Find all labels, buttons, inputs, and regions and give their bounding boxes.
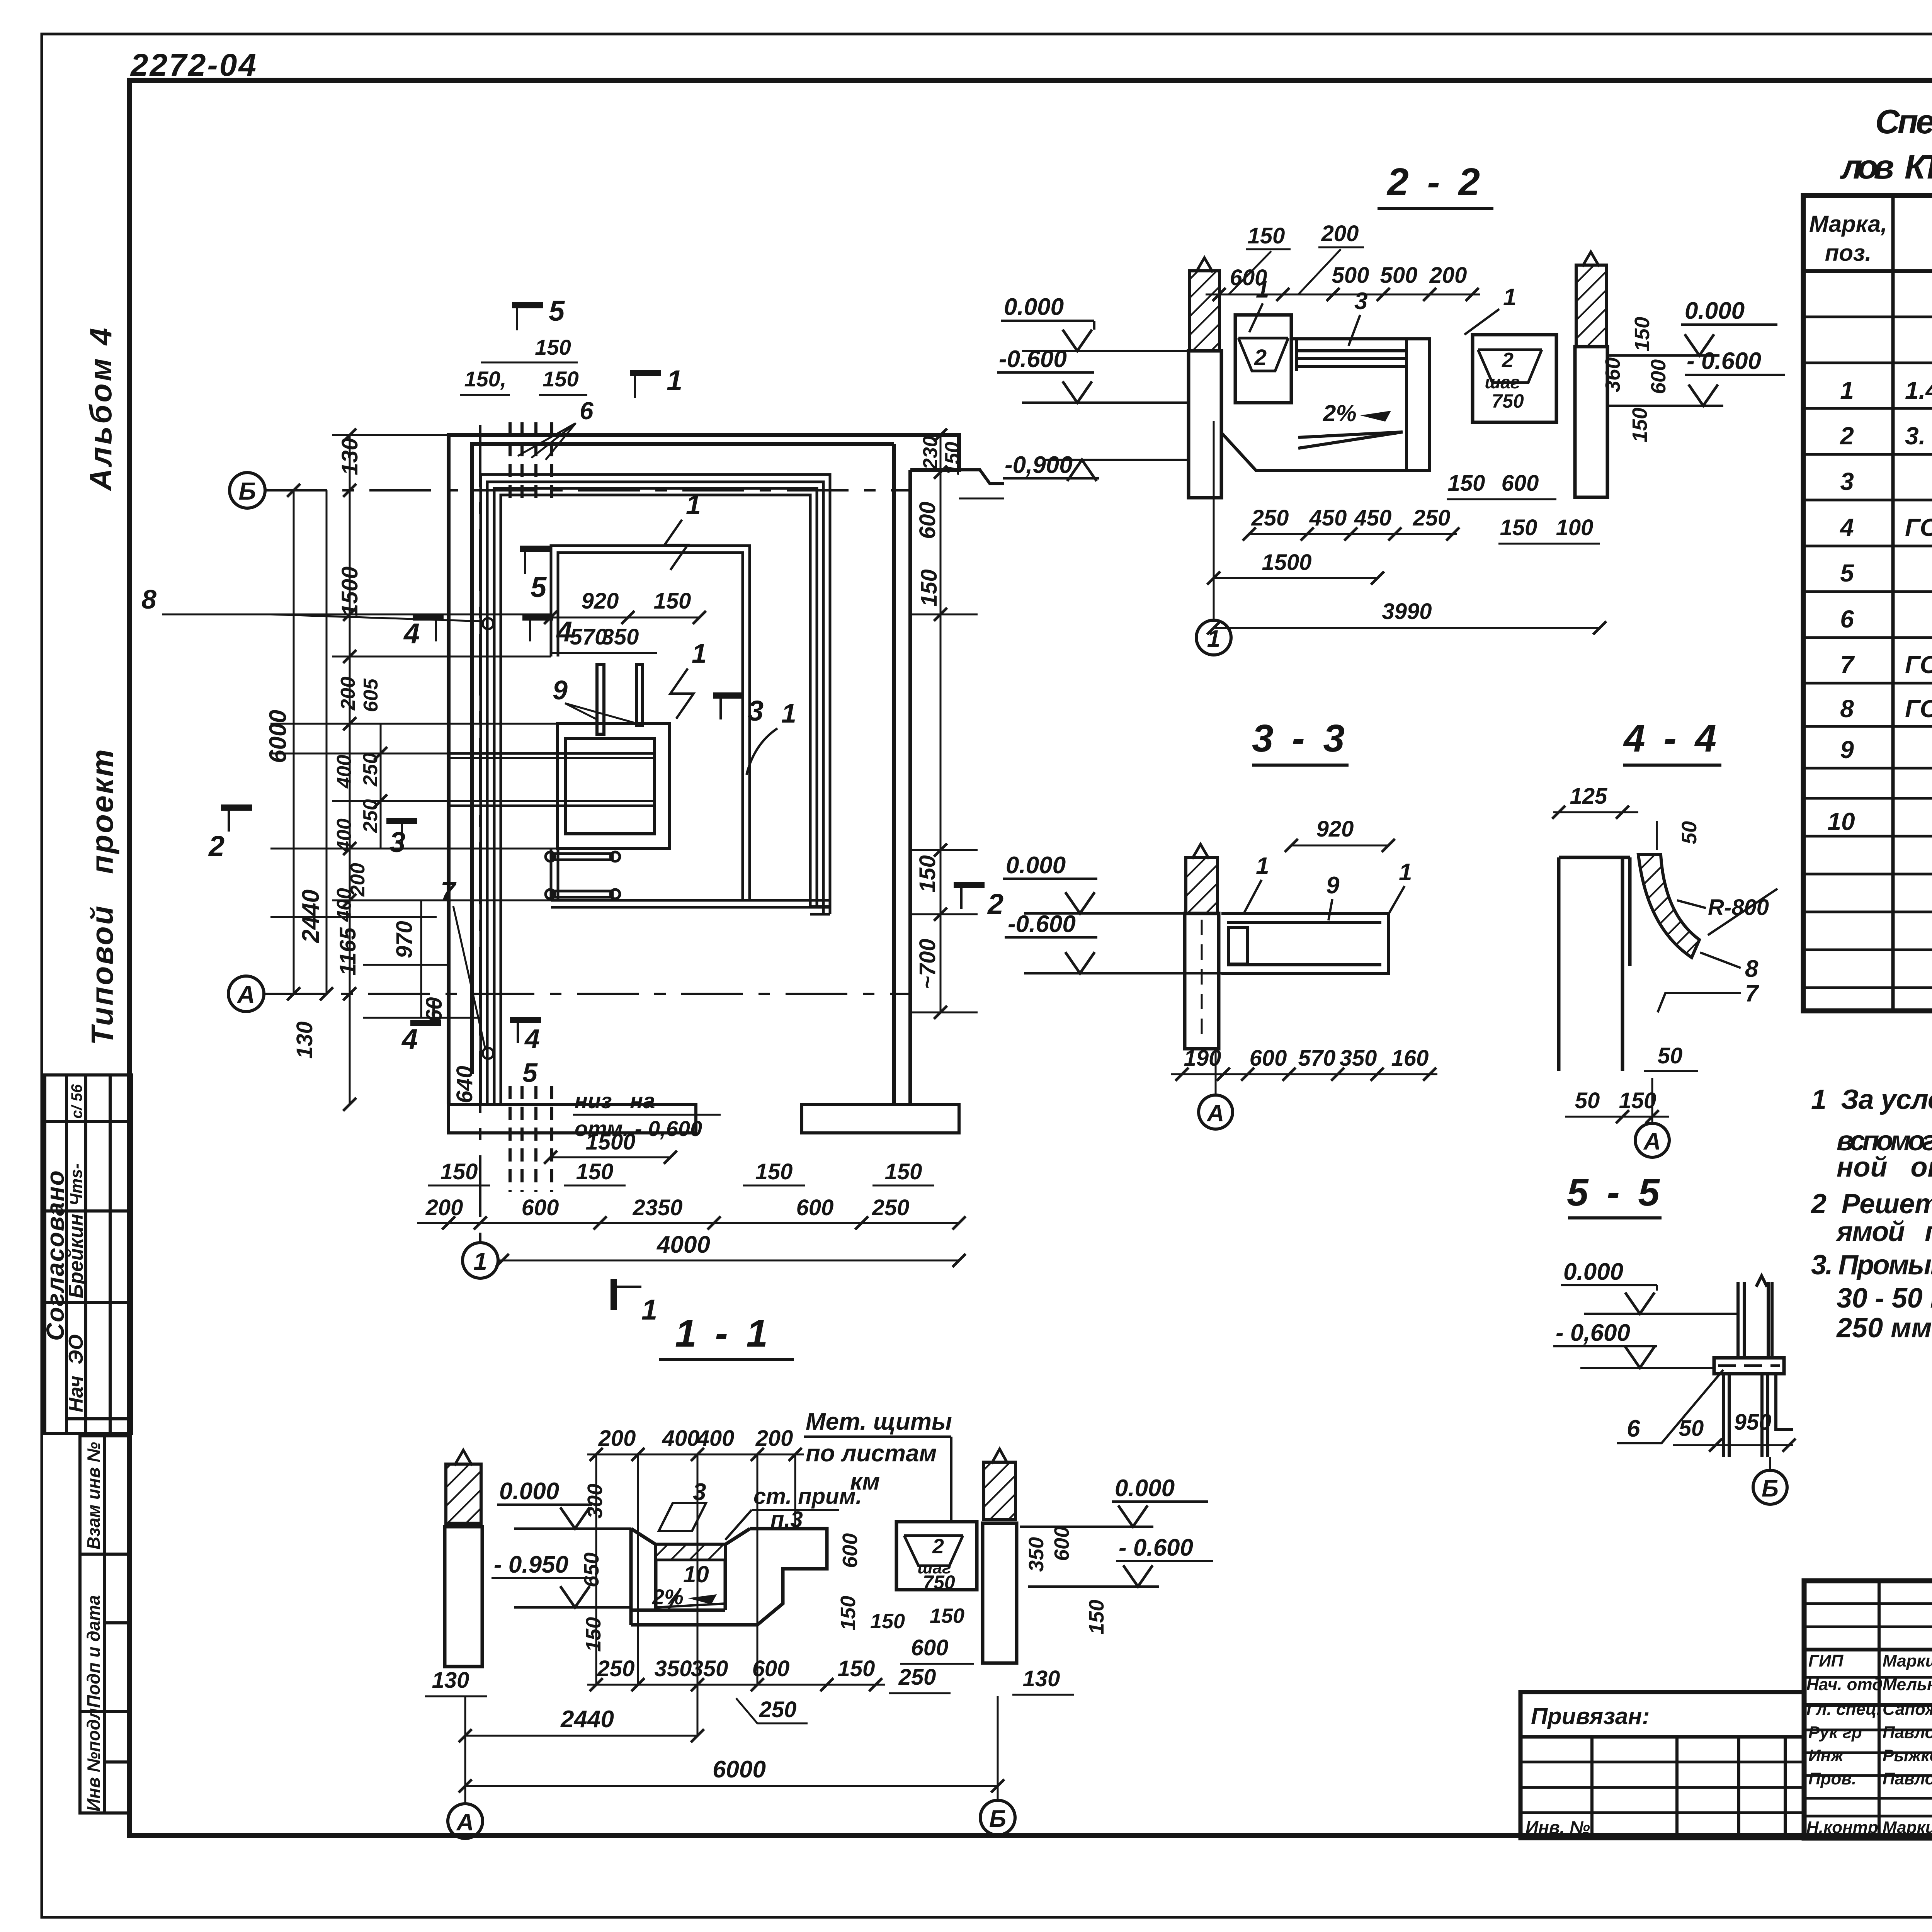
section mark 2 left bbox=[208, 808, 252, 862]
right column body bbox=[983, 1523, 1017, 1663]
svg-text:360: 360 bbox=[1601, 357, 1624, 392]
svg-text:250: 250 bbox=[872, 1195, 910, 1220]
pipe item 3 upper bbox=[449, 753, 655, 758]
LEFT MARGIN STRIP bbox=[41, 326, 132, 1813]
footing left bbox=[449, 1104, 696, 1133]
svg-text:250: 250 bbox=[1413, 505, 1451, 531]
svg-text:0.000: 0.000 bbox=[1115, 1475, 1175, 1502]
svg-text:Б: Б bbox=[1762, 1475, 1779, 1502]
central channel pit bbox=[631, 1529, 827, 1625]
svg-text:Сапожникова: Сапожникова bbox=[1883, 1700, 1932, 1719]
svg-text:3: 3 bbox=[1354, 288, 1367, 315]
section mark 3 left bbox=[386, 821, 417, 858]
svg-text:ной отметке: ной отметке bbox=[1837, 1152, 1932, 1183]
channel inner loop bbox=[551, 546, 830, 907]
svg-text:150: 150 bbox=[440, 1159, 478, 1184]
svg-text:2: 2 bbox=[1840, 422, 1854, 450]
svg-text:~700: ~700 bbox=[915, 939, 940, 989]
svg-text:1: 1 bbox=[1399, 859, 1412, 886]
channel block 2 right bbox=[1473, 335, 1556, 422]
PLAN VIEW bbox=[228, 422, 959, 1278]
svg-text:Инв №подл: Инв №подл bbox=[83, 1708, 104, 1811]
svg-text:1: 1 bbox=[1207, 626, 1220, 652]
svg-text:9: 9 bbox=[553, 675, 568, 705]
svg-text:Б: Б bbox=[238, 477, 256, 505]
callout 1 right channel bbox=[747, 698, 796, 775]
svg-text:Инв. №: Инв. № bbox=[1526, 1817, 1590, 1837]
svg-text:150,: 150, bbox=[464, 367, 507, 391]
svg-text:200: 200 bbox=[755, 1426, 793, 1451]
channel block 1 bbox=[1235, 315, 1291, 403]
svg-text:0.000: 0.000 bbox=[499, 1478, 559, 1505]
svg-text:920: 920 bbox=[582, 588, 619, 614]
svg-text:50: 50 bbox=[1658, 1043, 1683, 1068]
TITLE BLOCK bbox=[1520, 1581, 1932, 1872]
svg-text:9: 9 bbox=[1326, 872, 1340, 899]
svg-text:0.000: 0.000 bbox=[1004, 294, 1064, 320]
right side rotated dims bbox=[910, 435, 978, 1012]
axis А line bbox=[264, 993, 912, 995]
svg-text:Рук гр: Рук гр bbox=[1808, 1723, 1862, 1742]
svg-text:230: 230 bbox=[919, 436, 942, 470]
svg-text:Брейкин: Брейкин bbox=[65, 1214, 87, 1298]
svg-text:150: 150 bbox=[1248, 223, 1285, 248]
svg-text:- 0.950: - 0.950 bbox=[494, 1551, 568, 1578]
svg-text:- 0,600: - 0,600 bbox=[1556, 1320, 1630, 1346]
svg-text:3. 400 - 6/76: 3. 400 - 6/76 bbox=[1905, 422, 1932, 450]
svg-text:5: 5 bbox=[522, 1058, 538, 1088]
svg-text:100: 100 bbox=[1556, 515, 1594, 540]
svg-text:2272-04: 2272-04 bbox=[130, 48, 258, 83]
svg-text:200: 200 bbox=[598, 1426, 636, 1451]
svg-text:3 - 3: 3 - 3 bbox=[1252, 717, 1349, 760]
svg-text:Альбом 4: Альбом 4 bbox=[83, 326, 118, 492]
svg-text:0.000: 0.000 bbox=[1685, 298, 1745, 324]
svg-text:ГОСТ10704- 76: ГОСТ10704- 76 bbox=[1905, 651, 1932, 679]
svg-text:2%: 2% bbox=[1323, 400, 1357, 426]
svg-text:150: 150 bbox=[885, 1159, 922, 1184]
svg-text:с/ 56: с/ 56 bbox=[68, 1084, 85, 1119]
svg-text:Пров.: Пров. bbox=[1808, 1769, 1856, 1788]
svg-text:0.000: 0.000 bbox=[1563, 1259, 1623, 1285]
channel section bbox=[1221, 913, 1388, 973]
svg-text:7: 7 bbox=[1745, 980, 1759, 1007]
svg-text:150: 150 bbox=[755, 1159, 793, 1184]
channel outer loop bbox=[481, 474, 830, 1104]
embedded detail block МН bbox=[558, 724, 669, 849]
svg-text:8: 8 bbox=[141, 584, 156, 614]
svg-text:4 - 4: 4 - 4 bbox=[1623, 717, 1720, 760]
SECTION 4-4 bbox=[1552, 717, 1777, 1157]
svg-text:3: 3 bbox=[1840, 468, 1854, 495]
svg-text:Гл. спец.: Гл. спец. bbox=[1806, 1700, 1881, 1719]
svg-text:400: 400 bbox=[333, 755, 355, 789]
svg-text:2 Решетку Р-2 установить: 2 Решетку Р-2 установить над маслосборно… bbox=[1810, 1189, 1932, 1219]
footing right bbox=[802, 1104, 959, 1133]
svg-text:8: 8 bbox=[1745, 956, 1759, 982]
svg-text:250: 250 bbox=[597, 1656, 635, 1681]
svg-text:600: 600 bbox=[838, 1533, 862, 1568]
svg-text:4: 4 bbox=[401, 1023, 418, 1055]
svg-text:350: 350 bbox=[691, 1656, 728, 1681]
svg-text:150: 150 bbox=[870, 1610, 905, 1633]
svg-text:9: 9 bbox=[1840, 736, 1854, 764]
inventory table grid bbox=[80, 1436, 129, 1813]
PLAN DIMENSIONS bbox=[141, 295, 1004, 1326]
dim 4000 bbox=[499, 1260, 959, 1262]
svg-text:Нач ЭО: Нач ЭО bbox=[65, 1334, 87, 1412]
svg-text:1: 1 bbox=[692, 638, 707, 668]
svg-text:1500: 1500 bbox=[337, 566, 362, 616]
svg-text:1: 1 bbox=[1503, 284, 1516, 311]
bottom dim chain bbox=[417, 1222, 959, 1224]
svg-text:0.000: 0.000 bbox=[1006, 852, 1066, 879]
svg-text:2: 2 bbox=[987, 888, 1003, 920]
svg-text:лов КТП вспомогательного: лов КТП вспомогательного корпуса. bbox=[1840, 148, 1932, 186]
svg-text:Маркштедер: Маркштедер bbox=[1883, 1651, 1932, 1670]
curved pipe crescent bbox=[1638, 855, 1699, 957]
svg-text:1: 1 bbox=[667, 364, 682, 396]
svg-text:250 мм: 250 мм bbox=[1836, 1313, 1932, 1344]
svg-text:Маркин: Маркин bbox=[1883, 1818, 1932, 1837]
wall column body right bbox=[1575, 347, 1607, 497]
svg-text:Подп и дата: Подп и дата bbox=[83, 1595, 104, 1708]
svg-text:-0.600: -0.600 bbox=[999, 346, 1067, 372]
svg-text:1 За условную отметку ± 0 0: 1 За условную отметку ± 0 000 принят уро… bbox=[1811, 1084, 1932, 1115]
svg-text:600: 600 bbox=[752, 1656, 790, 1681]
svg-text:400: 400 bbox=[333, 818, 355, 852]
svg-text:1: 1 bbox=[1840, 376, 1854, 404]
section mark 2 right bbox=[954, 885, 1003, 920]
svg-text:950: 950 bbox=[1734, 1410, 1772, 1435]
svg-text:5: 5 bbox=[531, 571, 547, 603]
svg-text:250: 250 bbox=[1251, 505, 1289, 531]
svg-text:10: 10 bbox=[683, 1561, 709, 1587]
svg-text:130: 130 bbox=[337, 438, 362, 475]
callout 1 top channel bbox=[665, 490, 701, 570]
left extension line comb bbox=[270, 435, 566, 1018]
svg-text:150: 150 bbox=[915, 855, 940, 893]
svg-text:250: 250 bbox=[359, 753, 382, 787]
svg-text:1 - 1: 1 - 1 bbox=[675, 1312, 772, 1355]
svg-text:500: 500 bbox=[1380, 263, 1418, 288]
svg-text:R-800: R-800 bbox=[1708, 895, 1769, 920]
svg-text:600: 600 bbox=[911, 1635, 949, 1660]
left column body bbox=[445, 1527, 482, 1667]
svg-text:- 0.600: - 0.600 bbox=[1687, 348, 1761, 374]
axis А circle bbox=[228, 976, 264, 1012]
svg-text:50: 50 bbox=[1679, 1416, 1704, 1441]
section mark 4 right bbox=[522, 616, 572, 648]
svg-text:130: 130 bbox=[432, 1668, 469, 1693]
svg-text:125: 125 bbox=[1570, 784, 1608, 809]
svg-text:А: А bbox=[456, 1809, 474, 1836]
section mark 1 bottom bbox=[614, 1279, 657, 1326]
svg-text:150: 150 bbox=[917, 569, 942, 607]
svg-text:150: 150 bbox=[1631, 317, 1654, 352]
right channel block bbox=[896, 1522, 977, 1590]
svg-text:1: 1 bbox=[1256, 853, 1269, 879]
svg-text:150: 150 bbox=[576, 1159, 614, 1184]
svg-text:640: 640 bbox=[452, 1066, 477, 1103]
svg-text:570: 570 bbox=[1298, 1046, 1336, 1071]
svg-text:поз.: поз. bbox=[1825, 240, 1872, 266]
svg-text:1500: 1500 bbox=[585, 1129, 635, 1155]
svg-text:Марка,: Марка, bbox=[1809, 211, 1887, 237]
vertical ext lines top dims bbox=[596, 1454, 795, 1735]
wall column body bbox=[1185, 913, 1219, 1049]
svg-text:600: 600 bbox=[1050, 1526, 1073, 1561]
svg-text:200: 200 bbox=[1429, 263, 1467, 288]
svg-text:750: 750 bbox=[923, 1571, 955, 1593]
top pipe dims bbox=[481, 362, 578, 364]
svg-text:400: 400 bbox=[697, 1426, 735, 1451]
SECTION 1-1 bbox=[425, 1312, 1213, 1838]
svg-text:450: 450 bbox=[1354, 505, 1392, 531]
left hatched column bbox=[446, 1464, 481, 1523]
axis Б circle bbox=[230, 473, 265, 508]
svg-text:150: 150 bbox=[1448, 471, 1485, 496]
svg-text:2: 2 bbox=[932, 1535, 944, 1558]
wall verticals lower bbox=[1723, 1374, 1793, 1457]
svg-text:160: 160 bbox=[1391, 1046, 1429, 1071]
привязан table bbox=[1520, 1692, 1804, 1838]
svg-text:450: 450 bbox=[1309, 505, 1347, 531]
svg-text:150: 150 bbox=[837, 1596, 860, 1631]
left vertical dimension lines bbox=[294, 435, 421, 1104]
pipes through top wall bbox=[510, 422, 552, 498]
svg-text:200: 200 bbox=[337, 677, 359, 711]
callout 1 inner channel bbox=[670, 638, 707, 719]
section mark 1 top bbox=[630, 364, 682, 398]
svg-text:Инж: Инж bbox=[1808, 1746, 1844, 1765]
svg-text:600: 600 bbox=[796, 1195, 834, 1220]
svg-text:3. Промытый и просеянный: 3. Промытый и просеянный гравий , крупно… bbox=[1811, 1250, 1932, 1281]
svg-text:5 - 5: 5 - 5 bbox=[1567, 1171, 1663, 1214]
svg-text:Н.контр: Н.контр bbox=[1806, 1818, 1878, 1837]
svg-text:Рыжкова: Рыжкова bbox=[1883, 1746, 1932, 1765]
svg-text:1: 1 bbox=[781, 698, 796, 728]
svg-text:1.400-15 В.1. 550- 06: 1.400-15 В.1. 550- 06 bbox=[1905, 376, 1932, 404]
step level extension bbox=[959, 498, 1004, 500]
section mark 4-5 bottom bbox=[510, 1020, 541, 1088]
svg-text:600: 600 bbox=[1250, 1046, 1287, 1071]
svg-text:1165: 1165 bbox=[335, 927, 361, 976]
svg-text:250: 250 bbox=[759, 1697, 797, 1722]
svg-text:Нач. отд: Нач. отд bbox=[1806, 1675, 1883, 1694]
main stamp outer bbox=[1804, 1581, 1932, 1838]
approvals table grid bbox=[45, 1075, 132, 1434]
left column roles bbox=[1806, 1651, 1932, 1837]
svg-text:150: 150 bbox=[1619, 1088, 1656, 1113]
SPECIFICATION TABLE bbox=[1803, 102, 1932, 1011]
svg-text:Павлова: Павлова bbox=[1883, 1723, 1932, 1742]
svg-text:3: 3 bbox=[748, 695, 764, 727]
NOTES bbox=[1810, 1084, 1932, 1344]
svg-text:300: 300 bbox=[583, 1484, 607, 1519]
svg-text:6: 6 bbox=[580, 397, 594, 425]
wall verticals upper bbox=[1738, 1276, 1772, 1358]
svg-text:ст. прим.: ст. прим. bbox=[753, 1484, 862, 1509]
svg-text:1500: 1500 bbox=[1262, 550, 1311, 575]
svg-text:1: 1 bbox=[473, 1247, 487, 1275]
svg-text:Мельников: Мельников bbox=[1883, 1675, 1932, 1694]
svg-text:Павлова: Павлова bbox=[1883, 1769, 1932, 1788]
svg-text:3: 3 bbox=[693, 1479, 706, 1505]
svg-text:1: 1 bbox=[686, 490, 701, 520]
axis 1 circle bbox=[463, 1243, 498, 1278]
hatched wall column left bbox=[1190, 271, 1219, 351]
pipe item 4 lower bbox=[546, 889, 620, 899]
svg-text:- 0.600: - 0.600 bbox=[1119, 1534, 1193, 1561]
svg-text:5: 5 bbox=[549, 295, 565, 327]
svg-text:4000: 4000 bbox=[656, 1231, 710, 1258]
SECTION 5-5 bbox=[1553, 1171, 1796, 1504]
svg-text:50: 50 bbox=[1678, 821, 1701, 844]
embedded beam item 6 bbox=[1714, 1358, 1784, 1374]
svg-text:Мет. щиты: Мет. щиты bbox=[806, 1408, 952, 1435]
svg-text:2350: 2350 bbox=[632, 1195, 682, 1220]
embedded plate 9b bbox=[636, 665, 643, 725]
pipe item 4 upper bbox=[546, 852, 620, 861]
svg-text:6: 6 bbox=[1840, 605, 1854, 633]
svg-text:А: А bbox=[236, 981, 255, 1009]
svg-text:2: 2 bbox=[208, 830, 224, 862]
svg-text:ГИП: ГИП bbox=[1808, 1651, 1844, 1670]
svg-text:6000: 6000 bbox=[713, 1756, 766, 1783]
svg-text:8: 8 bbox=[1840, 695, 1854, 723]
section mark 3 right bbox=[713, 695, 764, 727]
svg-text:350: 350 bbox=[602, 624, 639, 650]
svg-text:ямой патрубком над углуб: ямой патрубком над углубленной частью bbox=[1835, 1216, 1932, 1247]
svg-text:200: 200 bbox=[425, 1195, 463, 1220]
svg-text:Привязан:: Привязан: bbox=[1531, 1703, 1650, 1729]
svg-text:2: 2 bbox=[1502, 349, 1514, 372]
hatched wall column right bbox=[1576, 265, 1606, 347]
building walls bbox=[449, 435, 959, 1104]
svg-text:Б: Б bbox=[989, 1806, 1006, 1832]
svg-text:970: 970 bbox=[392, 921, 417, 958]
svg-text:-0,900: -0,900 bbox=[1005, 452, 1073, 478]
section mark 4 left bbox=[403, 617, 444, 650]
svg-text:150: 150 bbox=[582, 1617, 605, 1652]
formwork hatch strip bbox=[656, 1544, 725, 1560]
svg-text:130: 130 bbox=[1023, 1666, 1060, 1691]
svg-text:7: 7 bbox=[1840, 651, 1855, 679]
section mark 5 top bbox=[512, 295, 565, 330]
svg-text:Чтѕ-: Чтѕ- bbox=[67, 1163, 86, 1206]
svg-text:4: 4 bbox=[1839, 514, 1854, 541]
axis А bbox=[1215, 1051, 1217, 1094]
svg-text:км: км bbox=[850, 1468, 880, 1495]
svg-text:605: 605 bbox=[360, 678, 382, 712]
svg-text:1: 1 bbox=[641, 1294, 657, 1326]
svg-text:2440: 2440 bbox=[560, 1706, 614, 1733]
svg-text:по листам: по листам bbox=[806, 1440, 937, 1467]
svg-text:50: 50 bbox=[1575, 1088, 1600, 1113]
svg-text:А: А bbox=[1206, 1100, 1225, 1127]
svg-text:600: 600 bbox=[915, 502, 940, 539]
svg-text:600: 600 bbox=[1647, 359, 1670, 394]
svg-text:350: 350 bbox=[1340, 1046, 1377, 1071]
top-right wall step bbox=[959, 470, 1004, 484]
svg-text:ГОСТ 10704 - 76: ГОСТ 10704 - 76 bbox=[1905, 514, 1932, 541]
hatched wall column bbox=[1186, 857, 1218, 913]
svg-text:600: 600 bbox=[522, 1195, 559, 1220]
axis 1 line bbox=[479, 425, 481, 1243]
section mark 5 mid bbox=[520, 549, 551, 603]
svg-text:10: 10 bbox=[1827, 808, 1855, 835]
svg-text:ГОСТ 10704 - 76: ГОСТ 10704 - 76 bbox=[1905, 695, 1932, 723]
svg-text:Взам инв №: Взам инв № bbox=[83, 1442, 104, 1549]
svg-text:6000: 6000 bbox=[265, 710, 291, 763]
wall outline bbox=[1559, 857, 1630, 1071]
svg-text:500: 500 bbox=[1332, 263, 1369, 288]
svg-text:150: 150 bbox=[535, 335, 571, 359]
right hatched column bbox=[984, 1462, 1015, 1520]
svg-text:250: 250 bbox=[359, 799, 382, 833]
svg-text:4: 4 bbox=[403, 617, 420, 650]
spec grid bbox=[1803, 196, 1932, 1011]
svg-text:130: 130 bbox=[292, 1021, 317, 1059]
svg-text:2: 2 bbox=[1254, 345, 1267, 370]
svg-text:Спецификация к схеме распо: Спецификация к схеме расположения кана- bbox=[1875, 102, 1932, 141]
svg-text:6: 6 bbox=[1627, 1415, 1640, 1442]
svg-text:600: 600 bbox=[1502, 471, 1539, 496]
axis Б bbox=[1769, 1457, 1771, 1469]
svg-text:3: 3 bbox=[389, 826, 405, 858]
svg-text:150: 150 bbox=[1628, 408, 1651, 442]
svg-text:150: 150 bbox=[930, 1604, 964, 1628]
axis А bbox=[464, 1696, 466, 1804]
svg-text:650: 650 bbox=[580, 1553, 603, 1587]
axis line and circle 1 bbox=[1213, 421, 1215, 620]
pipe item 3 lower bbox=[449, 801, 655, 806]
svg-text:2 - 2: 2 - 2 bbox=[1386, 160, 1484, 204]
svg-text:Типовой проект: Типовой проект bbox=[85, 748, 119, 1045]
svg-text:920: 920 bbox=[1316, 816, 1354, 842]
svg-text:4: 4 bbox=[524, 1024, 540, 1054]
pit middle bbox=[1221, 339, 1430, 470]
svg-text:5: 5 bbox=[1840, 559, 1854, 587]
svg-text:200: 200 bbox=[1321, 221, 1359, 246]
svg-text:150: 150 bbox=[654, 588, 691, 614]
svg-text:600: 600 bbox=[1230, 265, 1267, 290]
svg-text:150: 150 bbox=[838, 1656, 875, 1681]
svg-text:350: 350 bbox=[1025, 1537, 1048, 1572]
svg-text:250: 250 bbox=[898, 1665, 936, 1690]
axis Б bbox=[997, 1696, 999, 1800]
axis Б line bbox=[265, 489, 912, 492]
svg-text:150: 150 bbox=[1085, 1600, 1108, 1634]
svg-text:30 - 50 мм Минимальный слой: 30 - 50 мм Минимальный слой гравия толщи… bbox=[1837, 1283, 1932, 1314]
svg-text:-0.600: -0.600 bbox=[1008, 911, 1076, 937]
svg-text:750: 750 bbox=[1492, 390, 1524, 412]
embedded plate 9a bbox=[597, 665, 604, 734]
wall column body left bbox=[1189, 351, 1221, 498]
axis А bbox=[1651, 1078, 1653, 1122]
svg-text:150: 150 bbox=[1500, 515, 1537, 540]
svg-text:шаг: шаг bbox=[1485, 372, 1520, 392]
pipes through bottom wall bbox=[510, 1086, 552, 1192]
svg-text:350: 350 bbox=[655, 1656, 692, 1681]
svg-text:400: 400 bbox=[662, 1426, 700, 1451]
svg-text:А: А bbox=[1643, 1128, 1661, 1155]
svg-text:7: 7 bbox=[440, 876, 457, 906]
svg-text:3990: 3990 bbox=[1382, 599, 1432, 624]
section mark 4 bottom left bbox=[401, 1001, 441, 1055]
svg-text:низ на: низ на bbox=[575, 1088, 655, 1113]
